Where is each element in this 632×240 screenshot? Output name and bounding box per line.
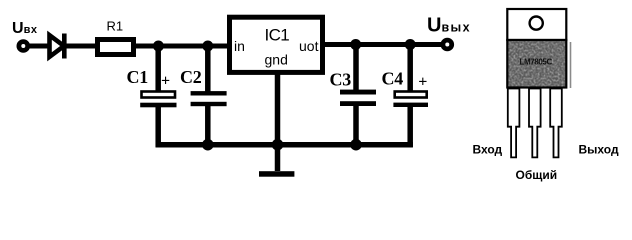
svg-text:+: + [418, 74, 427, 91]
TO-220 package tab [507, 9, 566, 40]
diode VD1 [50, 35, 65, 57]
op-amp U1 : IC1 regulator box [230, 17, 323, 72]
capacitor C2 [205, 46, 211, 94]
input terminal [19, 42, 28, 51]
TO-220 mounting hole [530, 17, 543, 30]
capacitor C4 (polarized) [407, 45, 413, 91]
junction node at C4 top [405, 39, 416, 50]
output terminal [443, 40, 452, 49]
svg-text:Вход: Вход [473, 143, 503, 157]
svg-text:+: + [161, 73, 170, 90]
capacitor C3 [353, 45, 359, 93]
svg-text:gnd: gnd [265, 52, 288, 68]
pin 2 common leg [529, 89, 541, 158]
svg-text:C4: C4 [382, 69, 404, 89]
junction node at C2 top [202, 41, 213, 52]
svg-text:IC1: IC1 [265, 25, 290, 44]
wire R1 to IC1 [136, 44, 229, 49]
wire input terminal to diode [28, 44, 49, 49]
TO-220 side edge line [570, 42, 572, 88]
capacitor C1 (polarized) [155, 46, 161, 91]
wire IC1 gnd pin down to ground [275, 72, 281, 171]
wire diode to R1 [64, 44, 97, 49]
svg-text:uot: uot [299, 38, 319, 54]
junction node at C1 top [153, 41, 164, 52]
pin 1 input leg [508, 89, 520, 158]
svg-text:R1: R1 [107, 19, 124, 34]
svg-text:Общий: Общий [516, 168, 558, 182]
pin 3 output leg [550, 89, 562, 158]
junction node at C3 top [350, 39, 361, 50]
svg-text:C3: C3 [330, 70, 352, 90]
svg-text:Выход: Выход [579, 143, 619, 157]
TO-220 body [507, 40, 566, 88]
bottom rail wire [156, 142, 413, 148]
junction node gnd rail [272, 139, 284, 151]
wire IC1 out to output terminal [323, 42, 445, 47]
junction node C2 bottom [202, 139, 214, 151]
svg-text:in: in [234, 38, 245, 54]
junction node C3 bottom [350, 139, 362, 151]
svg-text:C2: C2 [180, 67, 202, 87]
resistor R1 [98, 40, 134, 55]
ground [259, 171, 294, 177]
svg-text:LM7805C: LM7805C [520, 58, 553, 67]
svg-text:C1: C1 [127, 67, 149, 87]
